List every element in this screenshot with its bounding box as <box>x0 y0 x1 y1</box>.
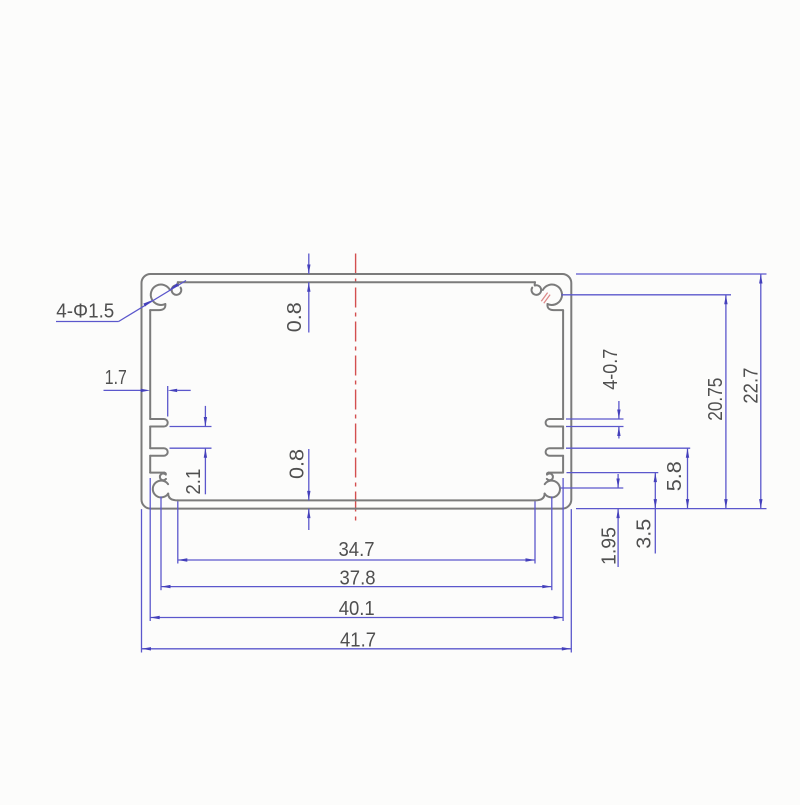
svg-text:1.95: 1.95 <box>599 527 621 565</box>
svg-text:4-Φ1.5: 4-Φ1.5 <box>56 300 114 322</box>
svg-text:4-0.7: 4-0.7 <box>600 349 622 390</box>
svg-text:0.8: 0.8 <box>284 302 306 332</box>
svg-text:41.7: 41.7 <box>340 630 376 652</box>
svg-text:34.7: 34.7 <box>339 539 375 561</box>
svg-text:40.1: 40.1 <box>339 598 375 620</box>
svg-text:37.8: 37.8 <box>340 568 376 590</box>
svg-text:1.7: 1.7 <box>105 367 127 389</box>
svg-text:0.8: 0.8 <box>287 449 309 479</box>
svg-text:2.1: 2.1 <box>183 469 205 495</box>
svg-text:20.75: 20.75 <box>705 378 727 421</box>
svg-text:22.7: 22.7 <box>741 368 763 404</box>
svg-text:3.5: 3.5 <box>634 519 656 549</box>
svg-text:5.8: 5.8 <box>664 461 686 491</box>
